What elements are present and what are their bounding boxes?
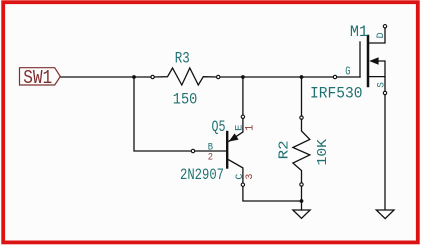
mosfet M1 gate plate — [359, 42, 361, 77]
pin circle M1 source — [383, 91, 386, 94]
svg-text:10K: 10K — [315, 139, 331, 166]
wire Q5 collector to bottom node — [243, 187, 302, 202]
mosfet M1 drain lead — [369, 28, 385, 43]
pin circle Q5 emitter — [241, 115, 244, 118]
pin circle Q5 collector — [241, 183, 244, 186]
wire R2 bottom pin to bottom node — [301, 186, 303, 201]
wire bottom node to ground stem — [301, 201, 303, 210]
svg-text:150: 150 — [173, 90, 198, 108]
wire node A down to base level — [134, 77, 191, 151]
wire SW1 to node A — [61, 76, 135, 78]
svg-text:2: 2 — [208, 152, 213, 163]
resistor R2 body — [293, 119, 310, 183]
svg-text:M1: M1 — [350, 23, 368, 41]
mosfet M1 channel bar — [367, 36, 370, 86]
svg-text:R3: R3 — [175, 50, 190, 68]
svg-text:S: S — [376, 82, 387, 88]
junction node C — [300, 75, 304, 79]
svg-text:2N2907: 2N2907 — [180, 166, 224, 184]
pin circle Q5 base — [191, 149, 194, 152]
mosfet M1 source lead — [369, 77, 385, 92]
transistor Q5 base bar — [226, 132, 228, 168]
svg-text:3: 3 — [245, 174, 256, 180]
flag SW1 outline — [20, 68, 61, 85]
ground under R2 — [293, 210, 310, 218]
svg-text:G: G — [345, 65, 350, 78]
pin circle R2 top — [300, 116, 303, 119]
mosfet M1 body-diode line — [377, 61, 385, 77]
pin circle R3 left — [151, 75, 154, 78]
wire R3 right pin to gate pin of M1 — [220, 76, 333, 78]
wire node A to R3 left pin — [134, 76, 151, 78]
wire M1 source to right ground — [384, 95, 386, 210]
pin circle M1 gate — [333, 75, 336, 78]
pin circle R2 bottom — [300, 183, 303, 186]
junction node B — [241, 75, 245, 79]
mosfet M1 bulk arrow — [369, 57, 378, 65]
svg-text:SW1: SW1 — [23, 67, 52, 89]
svg-text:D: D — [376, 32, 387, 38]
junction node A — [132, 75, 136, 79]
ground under M1 source — [376, 210, 394, 219]
transistor Q5 emitter arrow — [229, 133, 239, 141]
junction bottom node — [300, 199, 304, 203]
svg-text:1: 1 — [245, 125, 257, 131]
pin circle R3 right — [217, 75, 220, 78]
svg-text:R2: R2 — [276, 140, 292, 159]
wire node B down to emitter pin — [242, 77, 244, 115]
resistor R3 — [154, 68, 216, 85]
wire node C down to R2 top pin — [301, 77, 303, 116]
transistor Q5 collector pin — [229, 160, 243, 183]
transistor Q5 base pin — [195, 150, 226, 152]
pin circle M1 drain — [383, 25, 386, 28]
transistor Q5 emitter pin — [229, 118, 243, 141]
mosfet M1 gate pin — [337, 76, 360, 78]
svg-text:IRF530: IRF530 — [310, 84, 363, 102]
svg-text:Q5: Q5 — [212, 118, 226, 136]
